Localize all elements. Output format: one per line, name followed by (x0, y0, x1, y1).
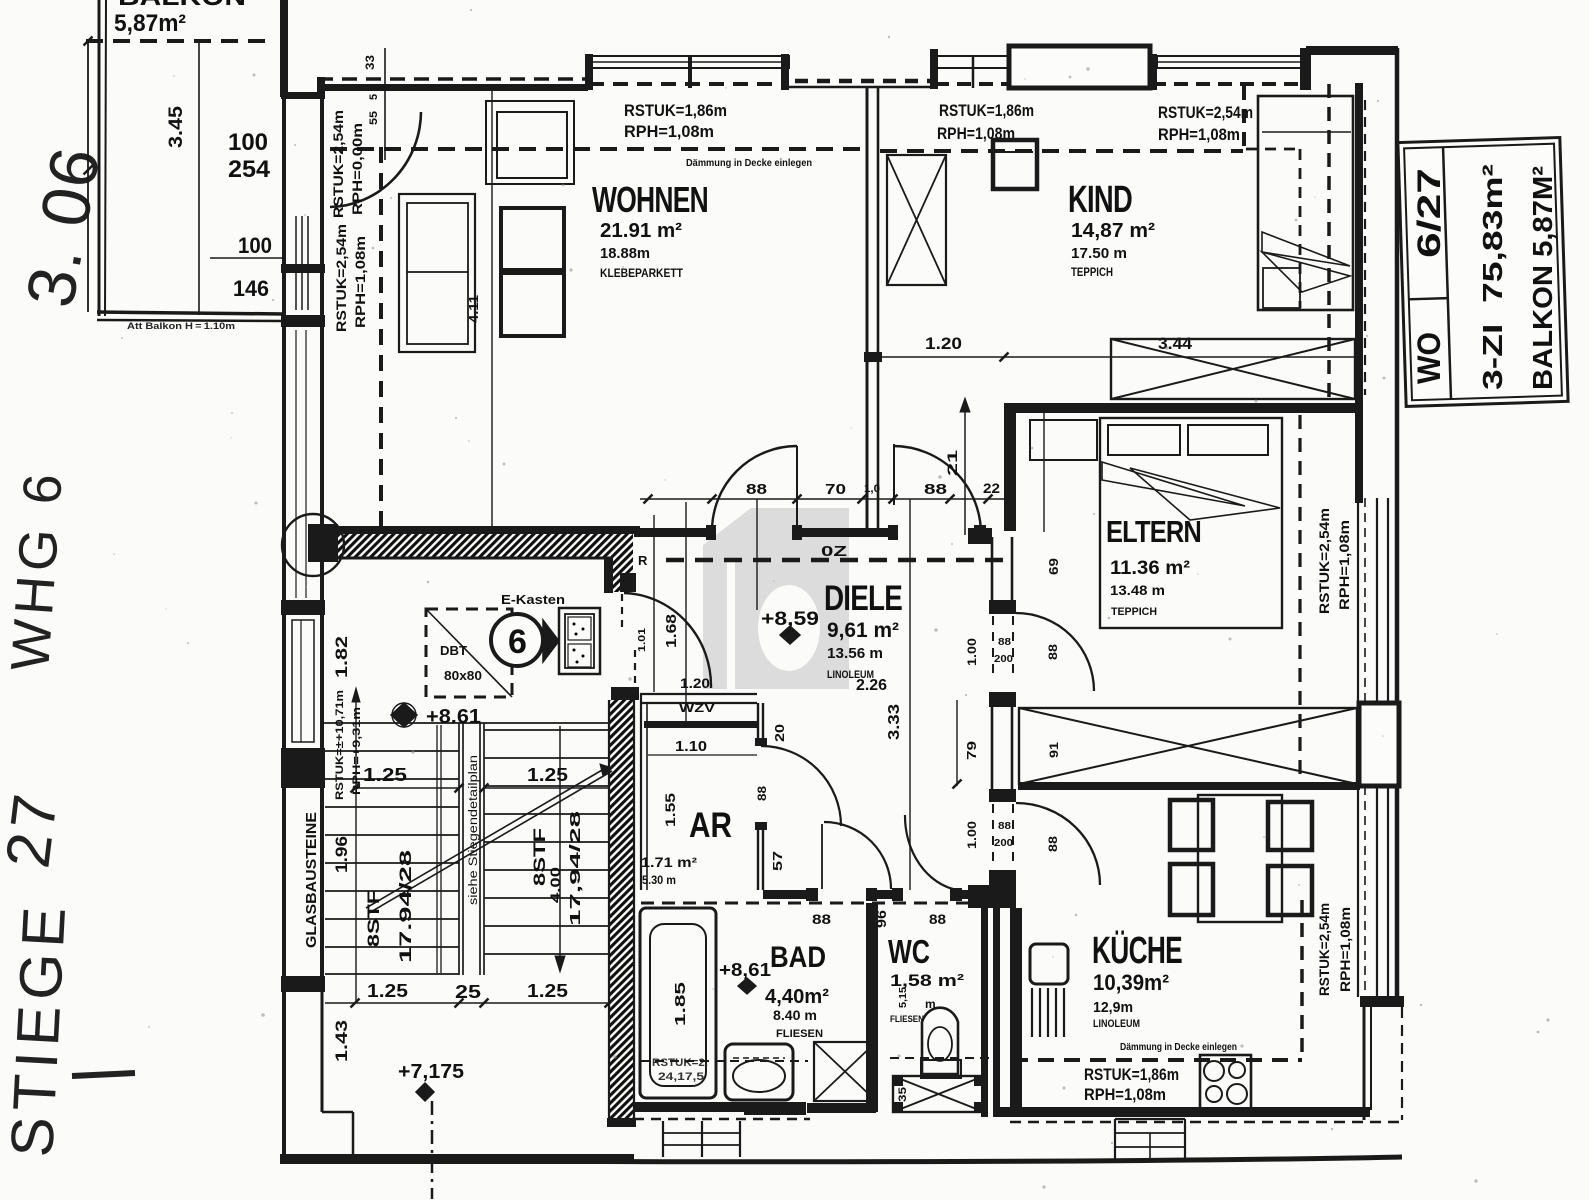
svg-text:88: 88 (924, 481, 947, 498)
diele dim vert line4 (653, 515, 655, 692)
balcony inner dim line (198, 41, 200, 315)
balcony top cut text (118, 0, 246, 11)
rstuk dashed vertical wohnen (379, 147, 383, 527)
kind bed dashed (1246, 149, 1300, 308)
wohnen furniture square top (486, 101, 574, 184)
svg-text:1.00: 1.00 (965, 821, 979, 849)
dbt dashed box (426, 609, 512, 697)
svg-text:27: 27 (0, 787, 71, 872)
svg-text:88: 88 (998, 821, 1012, 832)
kueche left wall (1010, 908, 1022, 1112)
bad door leaf (821, 824, 823, 889)
hatch band fill (315, 534, 633, 557)
svg-text:55: 55 (368, 111, 380, 125)
kueche window right (1358, 786, 1388, 997)
svg-text:1.25: 1.25 (367, 981, 408, 1001)
svg-text:100: 100 (228, 129, 268, 156)
svg-text:17,94/28: 17,94/28 (567, 811, 584, 926)
svg-text:4.00: 4.00 (547, 867, 563, 903)
hatch band top edge (310, 526, 640, 534)
svg-text:21.91 m²: 21.91 m² (600, 220, 682, 242)
svg-text:1.25: 1.25 (527, 981, 568, 1001)
bad door arc (824, 822, 891, 889)
top-left corner wall above balcony (280, 0, 288, 97)
svg-text:12,9m: 12,9m (1093, 999, 1133, 1016)
svg-text:RPH=1,08m: RPH=1,08m (1158, 125, 1240, 144)
bad dark band (744, 1102, 806, 1114)
stair dim line upper (351, 784, 610, 793)
ar left wall (641, 694, 647, 890)
svg-text:1.71 m²: 1.71 m² (641, 854, 697, 870)
dim 55 5 (368, 94, 380, 125)
dim 8stf left (364, 850, 415, 963)
svg-text:5,87m²: 5,87m² (114, 10, 186, 37)
diele wall jambs (706, 525, 986, 540)
junction circle (282, 514, 344, 576)
svg-text:RSTUK=2,54m: RSTUK=2,54m (1317, 903, 1332, 996)
svg-text:5,15: 5,15 (897, 987, 909, 1008)
kind wardrobe xbox (887, 155, 946, 285)
svg-text:WC: WC (888, 933, 930, 970)
svg-text:1.25: 1.25 (363, 765, 407, 785)
eltern dim 88 (1044, 413, 1061, 575)
svg-text:ELTERN: ELTERN (1106, 514, 1201, 549)
svg-text:88: 88 (998, 637, 1012, 648)
corridor dashed (641, 902, 1008, 905)
bad bottom dashed (634, 1118, 810, 1121)
svg-text:TEPPICH: TEPPICH (1111, 606, 1157, 618)
svg-text:3-ZI 75,83m²: 3-ZI 75,83m² (1477, 164, 1508, 390)
svg-text:siehe Stiegendetailplan: siehe Stiegendetailplan (468, 755, 480, 905)
svg-text:RPH=1,08m: RPH=1,08m (624, 122, 714, 141)
handwritten WHG 6 (0, 467, 74, 673)
svg-text:KÜCHE: KÜCHE (1092, 929, 1182, 972)
right wall cavity dashes (1364, 100, 1366, 395)
diele top wall segment3 (968, 528, 992, 544)
svg-text:17.50 m: 17.50 m (1071, 245, 1127, 262)
svg-text:Dämmung in Decke einlegen: Dämmung in Decke einlegen (686, 157, 812, 169)
svg-text:WO: WO (1411, 332, 1447, 384)
right wall lower dashed (1401, 1007, 1403, 1120)
svg-text:RSTUK=2,54m: RSTUK=2,54m (334, 224, 349, 332)
balcony door arc (330, 112, 421, 207)
stair vert dim (555, 726, 565, 972)
rstuk dashed vertical kind right (1327, 84, 1331, 402)
svg-text:80x80: 80x80 (444, 668, 482, 683)
svg-text:+8.61: +8.61 (426, 706, 481, 728)
svg-text:8STF: 8STF (364, 890, 383, 947)
svg-text:RSTUK=±+10,71m: RSTUK=±+10,71m (334, 690, 346, 800)
hoehe +8.61 stair (391, 703, 481, 728)
kueche table (1198, 795, 1282, 922)
wohnen door arc (712, 446, 797, 531)
svg-text:146: 146 (233, 276, 269, 301)
window kind sill (937, 56, 1009, 68)
plus7175 dashdot line (431, 1101, 434, 1199)
stair left dim line (352, 688, 360, 1003)
svg-text:4,40m²: 4,40m² (765, 986, 829, 1008)
kueche chairs (1170, 800, 1312, 915)
svg-text:RPH=0,00m: RPH=0,00m (350, 123, 365, 215)
label wc dims (897, 987, 936, 1011)
circle 6 marker (491, 614, 559, 666)
wohnen door leaf (796, 446, 798, 531)
wc rstuk dashed (890, 1057, 999, 1059)
left wall sill block (281, 264, 325, 273)
left wall block3 (281, 600, 325, 615)
svg-text:88: 88 (929, 911, 946, 927)
stair treads (325, 730, 609, 974)
svg-text:25: 25 (455, 982, 481, 1002)
left wall bottom corner (281, 976, 325, 992)
kind bed (1258, 96, 1353, 310)
right wall bottom corner (1360, 996, 1404, 1007)
svg-text:RSTUK=2,54m: RSTUK=2,54m (331, 110, 346, 218)
stairwell bottom wall (280, 1154, 634, 1164)
svg-text:1.43: 1.43 (332, 1020, 351, 1062)
wc door arc (905, 815, 957, 890)
stair handrail lines (437, 725, 441, 973)
diele top wall segment2 (797, 528, 893, 537)
handwritten 27 (0, 787, 71, 872)
svg-text:RPH=1,08m: RPH=1,08m (1338, 907, 1353, 992)
label rstuk vertical2 (334, 224, 368, 332)
hatch band bottom edge (315, 557, 633, 560)
svg-text:17.94/28: 17.94/28 (396, 850, 415, 963)
svg-text:21: 21 (944, 450, 960, 476)
svg-text:WZV: WZV (679, 701, 715, 715)
kueche hob (1200, 1055, 1251, 1114)
hoehe +8,59 (761, 609, 819, 644)
svg-text:1.20: 1.20 (680, 675, 710, 691)
stair central band (459, 723, 484, 975)
corner jog (317, 77, 325, 93)
right wall lower (1364, 1007, 1371, 1120)
svg-text:57: 57 (770, 851, 785, 871)
eltern wardrobe xbox (1019, 708, 1357, 784)
rstuk dashed vertical kind (1242, 86, 1246, 151)
svg-text:200: 200 (994, 653, 1013, 665)
diele right wall lines (992, 537, 1012, 789)
svg-text:KIND: KIND (1068, 179, 1132, 221)
wohnen couch (399, 194, 475, 352)
svg-text:10,39m²: 10,39m² (1093, 970, 1169, 995)
svg-text:Att Balkon H = 1.10m: Att Balkon H = 1.10m (127, 321, 235, 331)
svg-text:WOHNEN: WOHNEN (592, 179, 708, 220)
svg-text:FLIESEN: FLIESEN (890, 1014, 924, 1025)
svg-text:RSTUK=1,86m: RSTUK=1,86m (939, 101, 1034, 120)
right inner wall upper (1355, 83, 1363, 503)
ar dim 1.10 (648, 738, 757, 755)
eltern bed (1030, 418, 1282, 628)
diele right wall jamb1 (989, 600, 1016, 614)
kind bed blanket (1262, 232, 1350, 292)
svg-text:DBT: DBT (440, 643, 467, 658)
top-left corner wall piece (281, 92, 325, 99)
label rstuk wohnen (624, 101, 727, 141)
left wall step bottom (322, 1112, 353, 1155)
ar door arc (761, 746, 841, 826)
roller box (1009, 46, 1150, 88)
handwritten STIEGE (0, 899, 78, 1158)
svg-text:+7,175: +7,175 (398, 1061, 464, 1083)
svg-text:79: 79 (964, 741, 979, 760)
shaft lines (640, 694, 757, 703)
left wall block4 (281, 748, 325, 788)
left wall mid glazing (296, 330, 306, 598)
hatch corner step (604, 555, 636, 593)
svg-text:1.20: 1.20 (925, 334, 962, 353)
svg-text:+8,61: +8,61 (719, 960, 771, 980)
diele dim line (640, 495, 1005, 504)
bad smudge text (652, 1057, 708, 1083)
svg-text:1.96: 1.96 (332, 836, 351, 873)
wohnen square mid1 (501, 208, 564, 270)
stair top tread line (323, 722, 609, 724)
svg-text:RPH=1,08m: RPH=1,08m (1337, 520, 1352, 610)
svg-text:RPH=1,08m: RPH=1,08m (353, 236, 368, 328)
kueche door opening dashes (993, 804, 1013, 868)
kueche door arc (1016, 803, 1100, 885)
diele right wall jamb2 (989, 692, 1016, 707)
diele rstuk dashed (666, 558, 1012, 563)
svg-text:1.85: 1.85 (672, 982, 689, 1026)
bottom steps middle (663, 1121, 740, 1157)
kueche sink (1030, 944, 1068, 1037)
wohnen dim line vertical (491, 90, 493, 527)
svg-text:1.00: 1.00 (965, 638, 979, 666)
bad bottom black seg (744, 1102, 806, 1115)
wall wohnen-kind (864, 88, 882, 532)
hoehe +7,175 (398, 1061, 464, 1101)
label rstuk stair (334, 690, 363, 800)
top wall dashed above (318, 77, 588, 81)
bad bathtub (640, 908, 716, 1098)
svg-text:AR: AR (689, 806, 732, 845)
top wall mid segment thin line (789, 86, 936, 89)
elternt window right (1358, 498, 1388, 703)
svg-text:6: 6 (508, 623, 527, 661)
hoehe +8,61 bad (719, 960, 771, 994)
eltern rstuk dashed vertical (1298, 415, 1301, 782)
dbt text (440, 643, 482, 683)
top wall mid dashed (795, 79, 932, 84)
stair direction line (366, 764, 612, 913)
svg-text:R: R (638, 553, 648, 568)
svg-text:8.40 m: 8.40 m (773, 1007, 817, 1023)
svg-text:100: 100 (238, 233, 272, 258)
wall wc-kueche (981, 900, 1000, 1117)
svg-text:6/27: 6/27 (1411, 168, 1447, 258)
eltern door opening dashes (993, 616, 1013, 680)
diele right wall bottom corner (968, 885, 1016, 908)
svg-text:33: 33 (363, 55, 377, 70)
wc toilet (921, 1008, 961, 1078)
left wall inner lower (321, 992, 324, 1112)
svg-text:1.55: 1.55 (662, 793, 678, 827)
svg-text:200: 200 (994, 837, 1013, 849)
kind door leaf (893, 444, 895, 505)
kueche rstuk dashed h (1012, 1058, 1302, 1062)
dim line under 100 (210, 257, 284, 259)
balcony left wall (99, 0, 106, 316)
window wohnen posts (585, 54, 789, 90)
bad xbox (814, 1042, 876, 1101)
dim line kind floor (869, 353, 1356, 362)
svg-text:BALKON 5,87M²: BALKON 5,87M² (1527, 166, 1558, 390)
diele dim vert line (756, 499, 758, 610)
svg-text:STIEGE: STIEGE (0, 899, 78, 1158)
window wohnen dashed wall line (589, 82, 788, 86)
diele bottom wall segments (763, 890, 990, 899)
svg-text:11.36 m²: 11.36 m² (1110, 558, 1190, 579)
label rstuk eltern vertical (1317, 508, 1352, 614)
eltern top wall (1005, 403, 1358, 413)
diele right wall jamb4 (989, 870, 1016, 887)
left inner wall (320, 99, 324, 990)
svg-text:1.10: 1.10 (675, 738, 707, 755)
svg-text:FLIESEN: FLIESEN (776, 1028, 823, 1040)
diele dim vert line3 (909, 499, 911, 890)
glass panel lines (292, 620, 314, 742)
svg-text:RPH=+9,31m: RPH=+9,31m (351, 707, 363, 795)
svg-text:RSTUK=1,86m: RSTUK=1,86m (1084, 1065, 1179, 1084)
svg-text:RSTUK=2,: RSTUK=2, (652, 1057, 708, 1069)
ar top wall (644, 721, 757, 728)
wall bad-wc (866, 903, 878, 1112)
svg-text:88: 88 (746, 481, 767, 498)
kueche bottom dashed (1010, 1121, 1402, 1124)
svg-text:5.30 m: 5.30 m (642, 873, 676, 887)
window kind2 sill (1157, 56, 1303, 68)
bottom steps right (1115, 1119, 1185, 1160)
bad washbasin (725, 1044, 793, 1100)
hatch wall vertical (609, 700, 634, 1124)
svg-text:BAD: BAD (770, 941, 826, 974)
stair dim line lower (325, 999, 614, 1008)
rstuk dashed horizontal kind (880, 149, 1243, 153)
watermark logo b (703, 508, 849, 689)
svg-text:1,0: 1,0 (864, 483, 880, 495)
kind door arc (893, 446, 981, 534)
left outer wall (282, 99, 286, 1160)
bad rstuk dashed (640, 1060, 808, 1062)
svg-text:1.01: 1.01 (637, 627, 648, 652)
top wall west segment (322, 84, 588, 91)
handwritten dash bottom left (72, 1073, 135, 1076)
svg-text:LINOLEUM: LINOLEUM (1093, 1018, 1140, 1030)
svg-text:3.45: 3.45 (166, 106, 187, 148)
svg-text:88: 88 (1046, 836, 1060, 852)
svg-text:13.48 m: 13.48 m (1110, 582, 1165, 598)
svg-text:1.82: 1.82 (332, 636, 351, 678)
diele dim vert line2 (685, 502, 687, 728)
e-kasten box (559, 608, 600, 674)
hatch band left block (308, 524, 338, 562)
label rstuk vertical1 (331, 110, 365, 218)
label box outer (1398, 137, 1568, 406)
svg-text:E-Kasten: E-Kasten (501, 592, 565, 607)
svg-text:3.33: 3.33 (886, 704, 903, 740)
svg-text:2.26: 2.26 (856, 677, 887, 694)
svg-text:9,61 m²: 9,61 m² (827, 619, 899, 642)
svg-text:3.44: 3.44 (1158, 334, 1193, 353)
diele bottom wall jambs (806, 888, 992, 901)
right outer wall (1395, 48, 1400, 999)
ar right wall (755, 703, 767, 890)
svg-text:1.25: 1.25 (527, 765, 568, 785)
handwritten 3.06 (12, 141, 115, 313)
label rstuk kind2 (1158, 103, 1253, 144)
svg-text:TEPPICH: TEPPICH (1071, 267, 1113, 279)
entrance jamb block (611, 687, 639, 700)
window kind2 posts (1149, 48, 1311, 90)
svg-text:70: 70 (825, 481, 846, 498)
entrance door opening dashes (622, 594, 635, 686)
svg-text:RSTUK=2,54m: RSTUK=2,54m (1317, 508, 1332, 614)
top wall east high segment (1306, 46, 1398, 55)
kueche bottom wall (1000, 1107, 1370, 1117)
svg-text:14,87 m²: 14,87 m² (1071, 220, 1155, 242)
svg-text:RSTUK=1,86m: RSTUK=1,86m (624, 101, 727, 120)
svg-text:88: 88 (1046, 644, 1060, 660)
eltern door arc (1016, 613, 1094, 691)
svg-text:4.11: 4.11 (466, 295, 481, 323)
diele top wall segment1 (634, 528, 712, 537)
svg-text:254: 254 (228, 156, 271, 183)
svg-text:91: 91 (1047, 742, 1061, 758)
svg-text:35: 35 (897, 1087, 909, 1102)
svg-text:69: 69 (1046, 558, 1061, 575)
label rstuk kueche (1084, 1065, 1179, 1104)
svg-text:13.56 m: 13.56 m (827, 645, 883, 662)
kind bed footrect (1263, 268, 1300, 308)
window kind dashed (935, 82, 1010, 86)
bad bottom wall (634, 1102, 744, 1112)
entrance door arc (624, 593, 711, 688)
dim 8stf right (530, 811, 584, 926)
svg-text:5: 5 (368, 94, 380, 100)
svg-text:GLASBAUSTEINE: GLASBAUSTEINE (303, 812, 320, 948)
svg-text:Dämmung in Decke einlegen: Dämmung in Decke einlegen (1120, 1041, 1237, 1053)
svg-text:RPH=1,08m: RPH=1,08m (1084, 1085, 1166, 1104)
kueche rstuk dashed v (1300, 900, 1304, 1060)
label rstuk kueche vertical (1317, 903, 1353, 996)
eltern door dims (965, 637, 1060, 666)
left wall block2 (281, 315, 325, 327)
wohnen square mid2 (501, 273, 564, 336)
eltern corner dim line (960, 398, 970, 535)
balcony window glazing (296, 216, 308, 310)
svg-text:20: 20 (772, 724, 787, 742)
svg-text:RSTUK=2,54m: RSTUK=2,54m (1158, 103, 1253, 122)
kind wardrobe bottom xbox (1111, 339, 1355, 399)
svg-text:KLEBEPARKETT: KLEBEPARKETT (600, 268, 683, 280)
kind small square (993, 140, 1037, 189)
balcony bottom wall (97, 312, 284, 321)
svg-text:1.68: 1.68 (663, 614, 680, 648)
svg-text:88: 88 (755, 786, 769, 801)
svg-text:24,17,5: 24,17,5 (658, 1071, 704, 1083)
kueche door dims (965, 821, 1060, 852)
ground line (280, 1157, 1402, 1162)
balcony dashed edge (86, 39, 268, 43)
dim line at wall step (384, 48, 386, 160)
dim line eltern door vert (953, 700, 962, 789)
svg-text:18.88m: 18.88m (600, 245, 650, 262)
right wall pier (1359, 703, 1399, 786)
svg-text:DIELE: DIELE (824, 579, 902, 618)
